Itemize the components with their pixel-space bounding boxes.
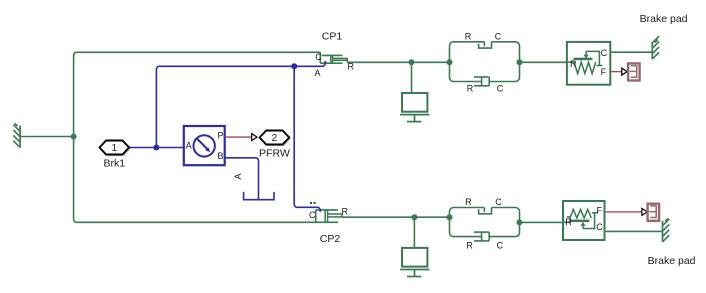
- svg-text:P: P: [217, 131, 223, 141]
- svg-text:PFRW: PFRW: [259, 148, 290, 160]
- svg-text:1: 1: [112, 143, 118, 154]
- svg-text:R: R: [347, 62, 354, 72]
- svg-text:Brake pad: Brake pad: [648, 255, 696, 267]
- svg-text:CP1: CP1: [322, 30, 343, 42]
- svg-text:C: C: [497, 84, 504, 94]
- svg-text:R: R: [465, 197, 472, 207]
- svg-text:Brk1: Brk1: [104, 158, 126, 170]
- svg-text:R: R: [465, 32, 472, 42]
- svg-text:C: C: [497, 241, 504, 251]
- svg-text:C: C: [495, 197, 502, 207]
- svg-text:A: A: [186, 140, 192, 150]
- svg-text:A: A: [233, 173, 243, 179]
- svg-text:CP2: CP2: [320, 233, 341, 245]
- svg-text:C: C: [596, 222, 603, 232]
- svg-text:C: C: [315, 52, 322, 62]
- svg-text:F: F: [596, 205, 602, 215]
- svg-text:R: R: [570, 59, 577, 69]
- svg-text:F: F: [601, 67, 607, 77]
- svg-text:R: R: [467, 84, 474, 94]
- svg-text:Brake pad: Brake pad: [640, 13, 688, 25]
- svg-text:R: R: [466, 241, 473, 251]
- svg-text:C: C: [601, 48, 608, 58]
- svg-text:C: C: [309, 210, 316, 220]
- svg-text:R: R: [341, 206, 348, 216]
- svg-text:A: A: [314, 68, 320, 78]
- svg-text:B: B: [217, 151, 223, 161]
- svg-text:2: 2: [272, 133, 278, 144]
- svg-text:R: R: [565, 217, 572, 227]
- svg-text:C: C: [495, 32, 502, 42]
